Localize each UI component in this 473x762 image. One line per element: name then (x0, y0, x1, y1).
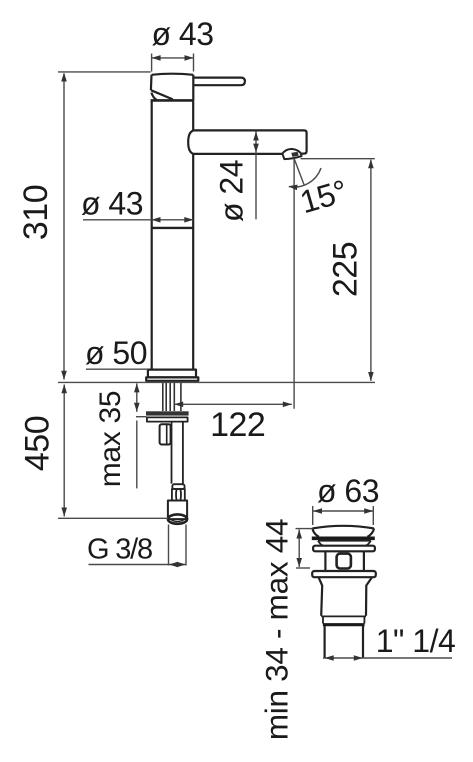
faucet body left edge (151, 100, 153, 369)
drain collar (323, 617, 364, 624)
hose connector nut G3/8 (168, 501, 187, 524)
drain taper (319, 577, 372, 615)
faucet head (cartridge housing) (151, 74, 194, 101)
faucet body right edge lower (192, 154, 194, 370)
supply hose (172, 422, 183, 484)
svg-text:225: 225 (327, 242, 365, 297)
dimension: ø63 (313, 506, 374, 525)
svg-text:ø 43: ø 43 (81, 186, 143, 222)
drain neck (318, 541, 371, 546)
lever handle (193, 78, 245, 86)
spout (188, 130, 306, 154)
washer 2 (147, 417, 188, 421)
dimension: ø24 spout (253, 132, 259, 220)
drain square hole (337, 554, 351, 569)
dimension: 225 vertical (368, 159, 374, 381)
drain step line (321, 615, 366, 617)
dimension: max 35 (134, 383, 147, 488)
dimension: 310 vertical (61, 73, 67, 380)
svg-text:ø 63: ø 63 (317, 473, 379, 509)
hose connector hex (172, 489, 185, 501)
svg-text:1" 1/4: 1" 1/4 (376, 623, 456, 659)
dimension: 1" 1/4 (323, 655, 452, 661)
hose connector collar (172, 484, 184, 489)
dimension: 450 vertical (58, 384, 168, 518)
tick at spout tip level (225 datum) (301, 158, 375, 160)
base flange plate 1 (148, 370, 196, 378)
base flange plate 2 (146, 377, 198, 380)
svg-text:ø 50: ø 50 (85, 335, 147, 371)
body joint line (152, 227, 194, 229)
dimension: 122 (174, 402, 292, 408)
svg-text:ø 24: ø 24 (214, 160, 250, 222)
washer 1 (dark) (146, 411, 189, 415)
svg-text:310: 310 (17, 185, 55, 240)
drain waist (325, 551, 364, 571)
drain tail pipe (325, 626, 363, 658)
svg-text:min 34 - max 44: min 34 - max 44 (259, 519, 295, 740)
drain flange 1 (313, 546, 375, 552)
svg-text:max 35: max 35 (94, 391, 127, 488)
tick at faucet top (310 datum) (58, 71, 151, 73)
svg-text:450: 450 (19, 416, 57, 471)
dimension: body ø43 (83, 217, 193, 223)
dimension: G 3/8 (89, 525, 187, 568)
faucet body right edge upper (192, 100, 194, 130)
svg-text:ø 43: ø 43 (151, 16, 213, 52)
dimension: 15 degree (288, 159, 321, 409)
svg-text:G 3/8: G 3/8 (87, 534, 152, 566)
svg-text:122: 122 (210, 406, 265, 444)
dimension: min34-max44 (296, 529, 313, 568)
mounting nut (160, 424, 171, 444)
aerator at spout tip (282, 149, 301, 159)
drain flange 2 (312, 571, 376, 577)
dimension: top ø43 (152, 54, 194, 72)
drain: dome cap (312, 526, 375, 538)
counter line (58, 381, 375, 383)
threaded rod lines (163, 381, 181, 411)
